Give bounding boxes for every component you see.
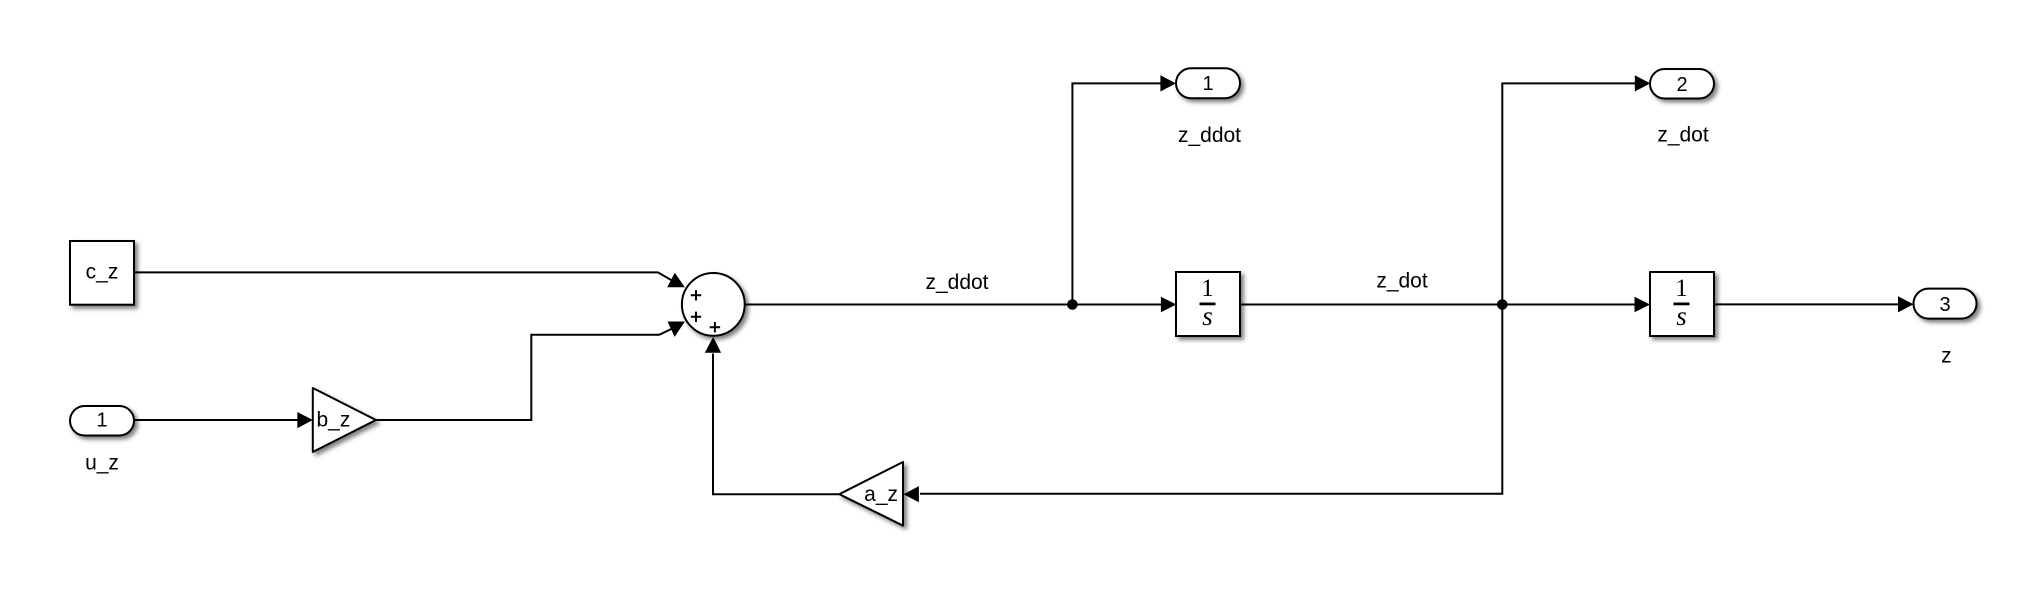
plus sign input 1 [691, 290, 701, 300]
branch wire up to outport 2 [1502, 83, 1636, 304]
svg-text:z_dot: z_dot [1657, 124, 1709, 147]
arrowhead into integrator 2 [1635, 297, 1651, 313]
integrator block 1 [1176, 272, 1240, 336]
svg-text:u_z: u_z [85, 452, 119, 475]
gain a_z [839, 462, 903, 526]
svg-text:z: z [1941, 345, 1952, 368]
arrowhead into outport 2 [1635, 75, 1651, 91]
svg-text:z_dot: z_dot [1376, 270, 1428, 293]
svg-text:s: s [1202, 301, 1213, 331]
arrowhead into sum input 2 [668, 322, 685, 337]
plus sign input 3 [710, 322, 720, 332]
svg-text:a_z: a_z [864, 483, 898, 506]
arrowhead into b_z [297, 412, 313, 428]
wire b_z to sum [376, 329, 672, 420]
gain b_z [313, 388, 376, 452]
svg-text:2: 2 [1676, 74, 1687, 96]
arrowhead into outport 3 [1898, 296, 1914, 312]
feedback wire from z_dot junction down to gain a_z [920, 305, 1502, 494]
arrowhead into sum input 3 [705, 337, 721, 353]
wire c_z to sum [134, 272, 672, 280]
sum block [682, 273, 745, 336]
svg-text:s: s [1676, 301, 1687, 331]
plus sign input 2 [691, 312, 701, 322]
svg-text:1: 1 [1202, 73, 1213, 95]
integrator block 2 [1650, 272, 1714, 336]
arrowhead into sum input 1 [667, 273, 685, 288]
svg-text:1: 1 [1675, 275, 1688, 302]
arrowhead into outport 1 [1160, 75, 1176, 91]
svg-text:z_ddot: z_ddot [1178, 124, 1241, 147]
junction node on z_dot wire [1497, 299, 1508, 310]
constant block c_z [70, 241, 134, 305]
outport 2 z_dot [1650, 69, 1714, 147]
branch wire up to outport 1 [1072, 83, 1162, 304]
inport 1 u_z [70, 406, 134, 475]
outport 1 z_ddot [1176, 68, 1241, 147]
wire integrator 2 to outport 3 [1714, 303, 1899, 305]
arrowhead into a_z [904, 486, 919, 502]
svg-text:3: 3 [1939, 294, 1950, 316]
wire integrator 1 to integrator 2 [1240, 304, 1636, 306]
outport 3 z [1914, 289, 1977, 368]
svg-text:1: 1 [96, 409, 107, 431]
wire u_z to gain b_z [134, 419, 299, 421]
svg-text:b_z: b_z [317, 409, 351, 432]
wire sum to integrator 1 [745, 304, 1162, 306]
wire a_z to sum bottom input [713, 354, 839, 495]
junction node on z_ddot wire [1067, 299, 1078, 310]
svg-text:z_ddot: z_ddot [925, 271, 988, 294]
svg-text:c_z: c_z [86, 261, 119, 284]
svg-text:1: 1 [1201, 275, 1214, 302]
arrowhead into integrator 1 [1161, 297, 1177, 313]
